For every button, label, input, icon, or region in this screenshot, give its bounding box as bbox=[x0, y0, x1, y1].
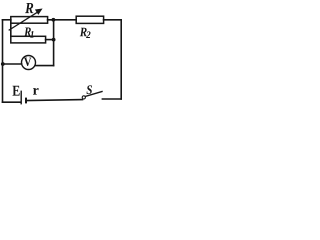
label E bbox=[13, 86, 20, 96]
label R1 sub bbox=[30, 31, 33, 38]
label R1 bbox=[24, 27, 31, 36]
wire bbox=[102, 98, 121, 100]
wire bbox=[120, 20, 122, 99]
wire bbox=[104, 19, 122, 21]
label r bbox=[33, 88, 39, 95]
wire bbox=[36, 65, 54, 67]
switch S bbox=[82, 92, 102, 100]
wire bbox=[3, 19, 11, 21]
junction dot bbox=[52, 38, 56, 42]
voltmeter V bbox=[22, 56, 36, 70]
wire bbox=[46, 39, 54, 41]
wire bbox=[10, 20, 12, 37]
wire bbox=[3, 63, 22, 65]
wire bbox=[48, 19, 77, 21]
junction dot bbox=[52, 18, 56, 22]
junction dot bbox=[1, 62, 5, 66]
wire bbox=[26, 100, 83, 101]
rheostat R bbox=[9, 9, 47, 31]
label R2 sub bbox=[86, 31, 90, 38]
label S bbox=[87, 85, 92, 94]
battery E bbox=[21, 91, 26, 105]
wire bbox=[3, 101, 21, 103]
resistor R1 bbox=[11, 36, 46, 43]
label R bbox=[25, 3, 33, 13]
wire bbox=[53, 20, 55, 66]
wire bbox=[2, 20, 4, 102]
label R2 bbox=[80, 28, 87, 37]
resistor R2 bbox=[76, 16, 103, 23]
label V bbox=[24, 58, 31, 66]
